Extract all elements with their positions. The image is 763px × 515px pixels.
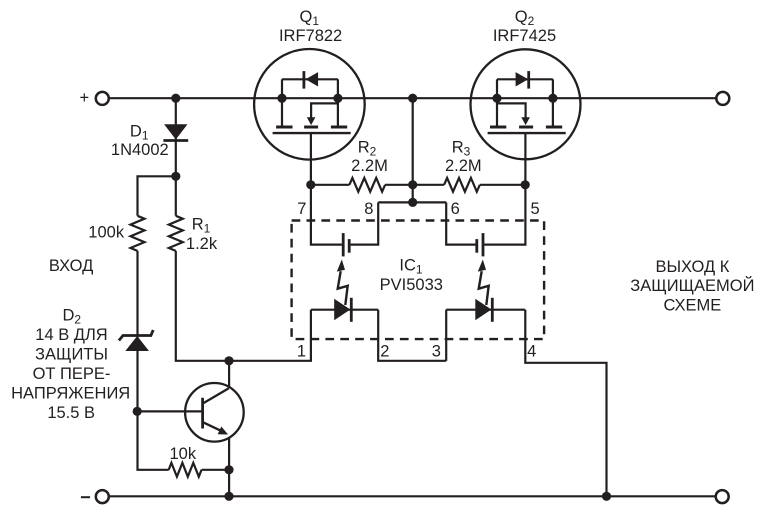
svg-text:НАПРЯЖЕНИЯ: НАПРЯЖЕНИЯ <box>11 385 130 403</box>
svg-text:3: 3 <box>432 343 441 361</box>
svg-text:+: + <box>79 89 89 107</box>
svg-text:4: 4 <box>527 343 536 361</box>
svg-text:IRF7425: IRF7425 <box>493 27 556 45</box>
svg-text:1: 1 <box>297 343 306 361</box>
svg-text:ЗАЩИТЫ: ЗАЩИТЫ <box>35 346 108 364</box>
svg-text:2: 2 <box>380 343 389 361</box>
svg-text:ВХОД: ВХОД <box>49 257 93 275</box>
svg-text:СХЕМЕ: СХЕМЕ <box>664 296 722 314</box>
svg-text:6: 6 <box>451 200 460 218</box>
svg-text:1.2k: 1.2k <box>186 235 218 253</box>
svg-text:ОТ ПЕРЕ-: ОТ ПЕРЕ- <box>33 365 111 383</box>
svg-text:2.2M: 2.2M <box>351 157 388 175</box>
svg-text:5: 5 <box>531 200 540 218</box>
svg-text:IRF7822: IRF7822 <box>279 27 342 45</box>
svg-text:2.2M: 2.2M <box>445 157 482 175</box>
svg-text:15.5 В: 15.5 В <box>47 404 95 422</box>
svg-text:100k: 100k <box>88 223 125 241</box>
svg-text:ЗАЩИЩАЕМОЙ: ЗАЩИЩАЕМОЙ <box>630 276 754 295</box>
svg-text:1N4002: 1N4002 <box>111 141 169 159</box>
svg-text:PVI5033: PVI5033 <box>380 276 443 294</box>
svg-text:8: 8 <box>364 200 373 218</box>
svg-text:10k: 10k <box>169 445 196 463</box>
svg-text:14 В ДЛЯ: 14 В ДЛЯ <box>35 326 107 344</box>
svg-text:ВЫХОД К: ВЫХОД К <box>655 258 729 276</box>
svg-text:7: 7 <box>297 200 306 218</box>
